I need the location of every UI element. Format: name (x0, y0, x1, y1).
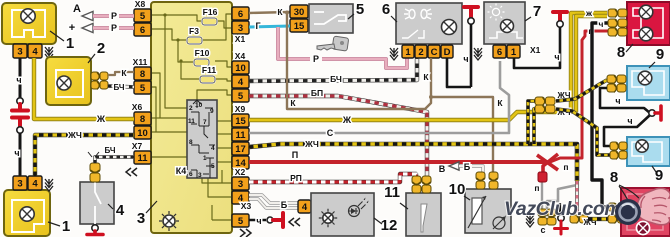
svg-text:6: 6 (189, 171, 193, 178)
pin X6-8 (134, 112, 151, 125)
pin 4 of lamp 1 top (28, 44, 42, 58)
svg-text:3: 3 (137, 210, 145, 227)
svg-text:7: 7 (533, 3, 541, 20)
pin X7-11 (134, 151, 151, 164)
pin X9-11 (232, 128, 249, 141)
connector 4 box (298, 200, 311, 213)
svg-text:3: 3 (17, 178, 22, 189)
fuse F3 (187, 37, 202, 44)
lamp 1 in tail lamp 8 (639, 5, 653, 19)
pin X2-4 (232, 191, 249, 204)
svg-text:17: 17 (235, 144, 246, 155)
svg-text:9: 9 (655, 167, 663, 184)
svg-text:6: 6 (382, 1, 390, 18)
svg-text:3: 3 (238, 23, 243, 34)
svg-text:2: 2 (97, 40, 105, 57)
svg-text:8: 8 (140, 69, 145, 80)
white wires B from X2-4 (249, 195, 299, 203)
black wire Ch tail lamps (592, 23, 610, 207)
svg-text:Х1: Х1 (530, 45, 541, 55)
relay K4 (187, 100, 217, 178)
sun symbol in 7 (488, 4, 505, 21)
svg-text:D: D (444, 47, 451, 58)
front turn signal lamp 1 (bottom) (4, 190, 50, 236)
svg-text:ж: ж (585, 8, 593, 18)
black wire from 9 top to ground (600, 88, 650, 113)
bullet on ZhCh bottom (570, 215, 588, 224)
svg-text:2: 2 (418, 47, 423, 58)
wire BCh to switch 4 (95, 157, 134, 163)
black wire from T right down (514, 27, 560, 68)
pin X9-15 (232, 114, 249, 127)
gray wire S from X9-11 to lamp 7 (249, 61, 509, 133)
svg-text:15: 15 (294, 21, 305, 32)
svg-text:12: 12 (381, 217, 398, 234)
svg-text:5: 5 (140, 11, 146, 22)
pin X6-10 (134, 126, 151, 139)
terminal ring upper (17, 98, 23, 104)
svg-text:Б: Б (281, 200, 288, 210)
LED symbol in 12 (349, 206, 360, 217)
lamp in turn signal 1 top (21, 9, 35, 23)
svg-text:Х4: Х4 (235, 51, 246, 61)
pin X1-6 (232, 7, 249, 20)
chevron mark near connector 4 (289, 218, 300, 226)
svg-text:1: 1 (62, 218, 70, 235)
pin 3 of lamp 1 top (13, 44, 27, 58)
svg-text:К: К (277, 7, 283, 17)
svg-text:ч: ч (14, 148, 19, 158)
switch 4 (bottom left) (80, 182, 114, 224)
black stub into ground ring (559, 203, 561, 217)
svg-text:5: 5 (356, 1, 364, 18)
svg-text:п: п (534, 183, 539, 193)
svg-text:БЧ: БЧ (104, 146, 115, 155)
svg-text:4: 4 (238, 77, 244, 88)
yellow wire Zh from pin 4 (34, 58, 134, 119)
svg-text:5: 5 (238, 91, 244, 102)
svg-text:БП: БП (311, 88, 323, 98)
arrow into switch 4 (88, 152, 99, 157)
svg-text:10: 10 (137, 128, 148, 139)
thin striped ZhCh wire A (528, 101, 536, 144)
striped bus ZhCh from X9-17 (249, 144, 577, 181)
striped continue A (556, 80, 607, 101)
bullet ZhCh A (535, 97, 555, 106)
side repeater lamp 2 (46, 57, 91, 105)
pin X11-8 (134, 67, 151, 80)
pin 6 of 7 (493, 45, 506, 58)
svg-text:Х6: Х6 (132, 102, 143, 112)
svg-text:6: 6 (238, 9, 243, 20)
svg-text:В: В (439, 164, 446, 174)
ground symbol near lamp 1 bottom (45, 179, 53, 191)
svg-text:11: 11 (235, 130, 246, 141)
svg-text:ЖЧ: ЖЧ (304, 139, 319, 149)
svg-text:К: К (423, 72, 429, 82)
pin 30 ignition (290, 5, 308, 18)
svg-text:К: К (121, 68, 127, 78)
svg-text:1: 1 (405, 47, 411, 58)
svg-text:10: 10 (449, 181, 466, 198)
pin X2-3 (232, 177, 249, 190)
terminal ring lower (17, 127, 23, 133)
svg-text:Х9: Х9 (235, 104, 246, 114)
svg-text:11: 11 (188, 118, 195, 125)
svg-text:1: 1 (203, 155, 207, 162)
pin 1 hazard (402, 45, 414, 58)
ground of switch 4 (92, 225, 98, 231)
svg-text:4: 4 (211, 145, 215, 152)
svg-text:8: 8 (610, 169, 618, 186)
pin 15 ignition (290, 19, 308, 32)
svg-text:3: 3 (17, 46, 22, 57)
svg-text:ЖЧ: ЖЧ (67, 130, 82, 140)
svg-text:30: 30 (294, 7, 305, 18)
ignition switch 5 (309, 4, 353, 33)
lamp in 9 top (638, 71, 652, 85)
label 3 with leader (146, 201, 157, 213)
interior lamp 12 (311, 193, 374, 236)
svg-text:ч: ч (627, 116, 632, 126)
pin 2 hazard (415, 45, 427, 58)
svg-text:VazClub.com: VazClub.com (504, 198, 621, 220)
svg-text:5: 5 (211, 163, 215, 170)
watermark logo (615, 199, 641, 225)
svg-text:F16: F16 (203, 7, 218, 17)
lamp in 9 bottom (636, 140, 648, 152)
svg-text:Х2: Х2 (235, 167, 246, 177)
gray wire S branch to bottom (547, 185, 577, 209)
svg-text:Х7: Х7 (132, 141, 143, 151)
pin X9-14 (232, 156, 249, 169)
ring terminal X3 (267, 217, 273, 223)
svg-text:F11: F11 (202, 65, 216, 75)
svg-text:11: 11 (384, 184, 400, 201)
instrument light 7 (484, 2, 525, 44)
svg-text:К4: К4 (176, 166, 187, 176)
second yellow vertical (576, 16, 607, 112)
black wire from X3-5 (249, 219, 266, 222)
gray wire from pad to s bullets (541, 182, 543, 209)
svg-text:C: C (431, 47, 438, 58)
tail lamp 8 top (627, 2, 670, 45)
pin X9-17 (232, 142, 249, 155)
ground symbol near lamp 1 top (45, 47, 53, 59)
hazard switch symbols (402, 9, 432, 38)
svg-text:6: 6 (140, 25, 145, 36)
svg-text:ч: ч (615, 96, 620, 106)
fuse F16 (202, 18, 217, 25)
bullet connector of switch 4 (90, 163, 100, 182)
ground bar X3 (273, 213, 283, 227)
svg-text:4: 4 (302, 202, 308, 213)
svg-text:4: 4 (32, 178, 38, 189)
svg-text:РП: РП (290, 173, 302, 183)
svg-text:5: 5 (238, 216, 244, 227)
svg-text:1: 1 (66, 35, 74, 52)
pin 3 of lamp 1 bottom (13, 176, 27, 190)
white wire B from rheostat (472, 166, 483, 177)
yellow bus Zh from X9-15 (249, 13, 607, 120)
svg-text:5: 5 (140, 83, 146, 94)
svg-text:ч: ч (554, 52, 559, 62)
ground T lower (12, 118, 28, 128)
ground point T right (553, 12, 567, 21)
svg-text:ч: ч (463, 54, 468, 64)
svg-text:4: 4 (116, 202, 125, 219)
svg-text:10: 10 (235, 63, 246, 74)
svg-text:9: 9 (656, 46, 664, 63)
wire BCh repeater to X11-5 (108, 86, 134, 87)
ground near s (558, 215, 564, 221)
pin X8-6 (134, 23, 151, 36)
lamp 2 in tail lamp 8 (639, 27, 653, 41)
fuse F11 (200, 76, 215, 83)
connector continuation mark below X3 (240, 229, 251, 237)
svg-text:F10: F10 (195, 48, 210, 58)
wire K from X1-6 to ignition (249, 12, 290, 13)
svg-text:С: С (327, 128, 334, 138)
pin X3-5 (232, 214, 249, 227)
lamp in tail lamp 8 bottom (637, 222, 650, 235)
svg-text:Г: Г (255, 21, 260, 31)
side repeater 9 top (627, 66, 670, 100)
ground point T near hazard (464, 7, 478, 18)
block 3 internal wiring (151, 15, 187, 108)
svg-text:F3: F3 (189, 26, 199, 36)
svg-text:ч: ч (16, 75, 21, 85)
junction dot on K wire (285, 11, 289, 15)
lamp in hazard switch (442, 20, 457, 35)
black ground wire up to T (470, 24, 473, 87)
svg-text:ч: ч (599, 19, 604, 29)
pin 1 of 7 (507, 45, 520, 58)
pins of rheostat 10 (476, 172, 485, 189)
watermark fist graphic (637, 188, 670, 224)
label 1 top (50, 31, 64, 41)
wire K repeater to X11-8 (108, 72, 134, 75)
side repeater 9 bottom (627, 137, 670, 166)
bullets tail lamp 8 (608, 9, 627, 18)
turn signal switch 11 (406, 193, 441, 236)
ground symbol near 7 (474, 48, 482, 60)
svg-text:Х1: Х1 (235, 34, 246, 44)
pin X4-10 (232, 61, 249, 74)
svg-text:Ж: Ж (342, 115, 352, 125)
connector continuation mark below X7 (126, 168, 137, 176)
thin striped ZhCh wire B (534, 109, 536, 144)
svg-text:Б: Б (464, 162, 471, 172)
bullets of 9 top (607, 75, 626, 84)
illumination rheostat 10 (465, 189, 511, 233)
pin D hazard (441, 45, 453, 58)
lamp in repeater 2 (57, 76, 71, 90)
fuse/relay unit block 3 (151, 2, 232, 233)
pin 4 of lamp 1 bottom (28, 176, 42, 190)
red bus P from X9-14 (249, 160, 545, 164)
black wire from pin 3 down (19, 58, 22, 98)
lamp in turn signal 1 bottom (20, 207, 34, 221)
svg-text:8: 8 (617, 44, 625, 61)
svg-text:ч: ч (256, 216, 261, 226)
junction dot K (429, 95, 433, 99)
striped wire ZhCh from bottom pin 4 (35, 135, 134, 176)
svg-text:1: 1 (511, 47, 517, 58)
front turn signal lamp 1 (top) (2, 3, 56, 44)
lamp icon inside block 3 (163, 215, 175, 227)
bullet connector s bottom (538, 209, 547, 225)
svg-text:Х3: Х3 (241, 201, 252, 211)
black wire from 9 bottom to ground (604, 115, 650, 146)
svg-text:Х8: Х8 (135, 0, 146, 9)
tail lamp 8 bottom (621, 188, 670, 236)
hazard switch 6 (396, 3, 462, 44)
svg-text:П: П (292, 150, 298, 160)
lamp in 7 (501, 20, 514, 33)
svg-text:с: с (540, 225, 545, 235)
ground symbol near hazard pins (390, 48, 398, 60)
svg-text:Р: Р (111, 23, 117, 33)
wire G cyan X1-3 to 15 (249, 26, 290, 27)
lamp symbol in 12 (323, 213, 333, 223)
svg-text:Р: Р (111, 11, 117, 21)
black ground wire from pin D (447, 58, 471, 87)
svg-text:8: 8 (140, 114, 145, 125)
ground T upper (12, 104, 28, 111)
svg-text:3: 3 (238, 179, 243, 190)
ground of side repeaters (649, 110, 655, 116)
svg-text:Х11: Х11 (133, 57, 148, 67)
svg-text:15: 15 (235, 116, 246, 127)
svg-text:4: 4 (32, 46, 38, 57)
svg-text:9: 9 (210, 108, 214, 115)
pin X4-5 (232, 89, 249, 102)
key icon (317, 36, 349, 51)
svg-text:3: 3 (198, 172, 202, 179)
brown wire K from hazard pin C (430, 58, 432, 97)
svg-text:2: 2 (189, 105, 193, 112)
label 1 bottom (48, 222, 60, 226)
pins of switch 11 (412, 176, 421, 193)
svg-text:10: 10 (195, 102, 203, 109)
pin X8-5 (134, 9, 151, 22)
red fork (537, 155, 558, 170)
bullets of 9 bottom (610, 142, 627, 151)
black wire to lower lamp (19, 133, 22, 176)
bullets of tail lamp 8 bottom (608, 203, 626, 212)
svg-text:+: + (69, 22, 75, 34)
striped wire BP from X4-5 to switch 11 (249, 96, 427, 176)
pale striped continuation down (575, 181, 579, 214)
svg-text:БЧ: БЧ (330, 74, 342, 84)
brown wire K from ignition down and right (287, 12, 493, 172)
svg-text:п: п (563, 162, 568, 172)
striped wire to tail lamp bottom (588, 217, 610, 221)
pin C hazard (428, 45, 440, 58)
svg-text:11: 11 (137, 153, 148, 164)
svg-text:Ж: Ж (96, 114, 106, 124)
pin X4-4 (232, 75, 249, 88)
striped continue B (556, 109, 610, 155)
lamp in tail lamp 8 bottom overlay (637, 222, 650, 235)
svg-text:К: К (497, 98, 503, 108)
svg-text:БЧ: БЧ (113, 83, 124, 92)
bullet ZhCh B (535, 105, 555, 114)
pin X11-5 (134, 81, 151, 94)
svg-text:6: 6 (497, 47, 502, 58)
red wire P up to tail lamp (550, 31, 608, 162)
svg-text:Р: Р (313, 54, 319, 64)
svg-text:8: 8 (189, 139, 193, 146)
ground mark near s (526, 215, 534, 227)
pink wire P to X8-5 (119, 14, 134, 18)
pink wire P to X8-6 (119, 26, 134, 30)
pink wire R from ignition to hazard switch (278, 27, 310, 59)
striped wire BCh from X4-4 to hazard pin 2 (249, 58, 417, 81)
striped wire RP from X2-3 to switch 11 (249, 174, 416, 182)
bullet connectors of repeater 2 (91, 72, 108, 81)
label 2 (88, 54, 95, 63)
svg-text:К: К (290, 98, 296, 108)
svg-text:А: А (73, 3, 81, 15)
pin X1-3 (232, 21, 249, 34)
fuse F10 (194, 59, 209, 66)
svg-text:7: 7 (203, 119, 207, 126)
